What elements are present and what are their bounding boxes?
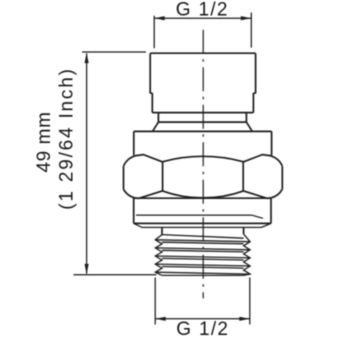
svg-text:49 mm: 49 mm	[34, 111, 55, 172]
svg-text:G 1/2: G 1/2	[176, 0, 229, 20]
svg-text:(1 29/64 Inch): (1 29/64 Inch)	[57, 67, 78, 209]
svg-text:G 1/2: G 1/2	[176, 319, 229, 340]
